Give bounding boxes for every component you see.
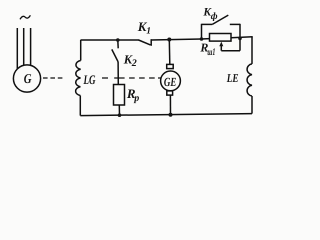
wire: into Rsh1 box <box>202 38 210 40</box>
svg-text:G: G <box>24 71 32 86</box>
top wire left segment <box>81 39 140 41</box>
svg-text:2: 2 <box>131 58 137 69</box>
junction dot GE bottom <box>169 113 173 117</box>
switch Kf blade <box>212 15 228 24</box>
svg-text:ф: ф <box>211 12 218 22</box>
junction dot GE top <box>167 38 171 42</box>
generator G three-phase leads <box>17 28 30 70</box>
label K2 <box>123 52 137 69</box>
wire: left edge bottom <box>79 96 81 116</box>
label Rsh1 <box>199 41 215 59</box>
inductor LE <box>247 64 252 96</box>
junction dot bypass right <box>238 37 242 41</box>
generator G <box>13 65 40 92</box>
bottom wire <box>80 114 252 116</box>
switch K2 top stub <box>117 40 119 48</box>
bypass branch right vertical <box>239 24 241 51</box>
AC tilde symbol <box>20 15 30 19</box>
junction dot Rp bottom <box>118 113 122 117</box>
wire: Rp to bottom <box>118 105 120 115</box>
switch K2 blade <box>112 49 118 62</box>
bypass branch left vertical <box>201 24 203 39</box>
junction dot K2 top <box>116 38 120 42</box>
rheostat slider arrow <box>219 42 223 51</box>
label K1 <box>137 19 151 36</box>
wire: GE branch bottom <box>169 95 171 115</box>
wire: K2 to Rp <box>117 62 119 85</box>
bypass branch top wire right <box>230 23 240 25</box>
svg-text:p: p <box>133 93 139 104</box>
resistor Rsh1 box <box>210 34 232 42</box>
switch K1 contact tick <box>150 39 152 46</box>
wire: right edge top <box>251 37 253 64</box>
label Rp <box>126 86 139 104</box>
bypass branch top wire left <box>202 23 213 25</box>
resistor Rp box <box>114 85 125 106</box>
svg-text:LG: LG <box>83 72 96 87</box>
exciter GE bottom brush <box>167 91 173 95</box>
shaft dashed coupling G to GE <box>43 77 162 79</box>
switch K1 blade <box>139 40 151 45</box>
svg-text:1: 1 <box>146 26 151 36</box>
exciter GE top brush <box>167 64 174 68</box>
rheostat tap wire <box>221 50 240 52</box>
exciter GE <box>161 71 181 91</box>
svg-text:LE: LE <box>226 71 239 85</box>
label Kf <box>202 7 217 23</box>
top wire middle segment <box>151 39 201 40</box>
junction dot bypass left <box>200 37 204 41</box>
svg-text:GE: GE <box>164 75 177 89</box>
wire: right edge bottom <box>251 96 253 114</box>
wire: top right to corner <box>231 37 253 38</box>
inductor LG <box>76 61 81 96</box>
svg-text:ш1: ш1 <box>207 47 215 58</box>
wire: left edge top <box>80 40 82 61</box>
wire: GE branch top <box>168 39 171 64</box>
